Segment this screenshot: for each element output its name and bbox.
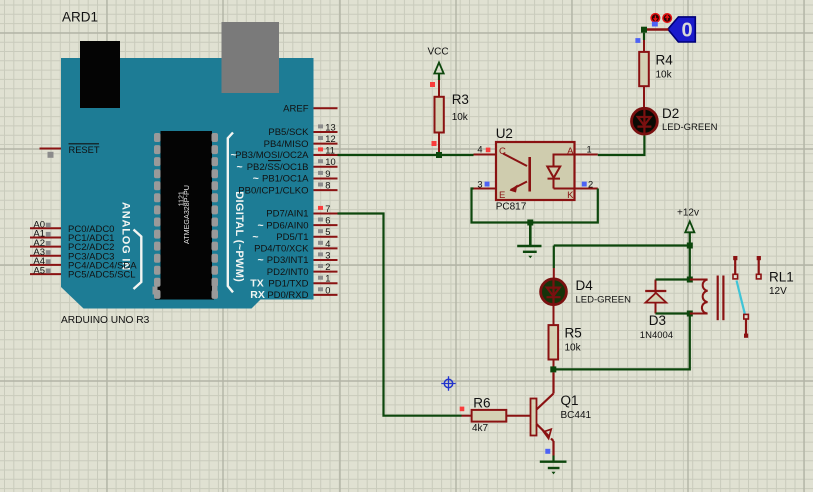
overline over SS of PB2 (268, 160, 281, 162)
label BC441 (561, 410, 592, 421)
svg-text:DIGITAL (~PWM): DIGITAL (~PWM) (233, 191, 245, 282)
LED D4 (541, 268, 567, 305)
svg-text:10k: 10k (656, 70, 673, 81)
label 10k (R4) (656, 70, 673, 81)
svg-text:0: 0 (325, 285, 330, 295)
svg-text:8: 8 (325, 181, 330, 191)
pin 5 (PD5/T1) (252, 227, 337, 243)
junction coil bottom (687, 311, 693, 317)
pin 0 (PD0/RXD) (250, 285, 337, 301)
svg-text:RESET: RESET (69, 145, 100, 155)
label ARDUINO UNO R3 (61, 315, 150, 326)
svg-text:+12v: +12v (677, 208, 699, 219)
origin crosshair marker (441, 376, 455, 390)
ATMEGA328P chip pads (154, 133, 218, 299)
state indicator squares (blue) (635, 22, 657, 43)
svg-text:VCC: VCC (427, 47, 448, 58)
pin RESET (40, 144, 100, 158)
pin 10 (PB2/SS/OC1B) (237, 157, 338, 173)
U2 pin labels C A E K (499, 146, 574, 201)
ARD1 bottom ISP header (black with pads) (153, 280, 218, 300)
svg-text:ARD1: ARD1 (62, 10, 98, 25)
svg-text:D4: D4 (576, 278, 594, 293)
relay RL1 core bars (718, 276, 724, 321)
logicstate toggle arrows (red circles) (651, 14, 671, 23)
ground symbol below U2 (517, 246, 541, 258)
label 1N4004 (640, 330, 673, 341)
label 10k (R3) (452, 112, 469, 123)
ARD1 power jack (black) (80, 41, 120, 108)
svg-text:AREF: AREF (283, 103, 309, 114)
pin 12 (PB4/MISO) (264, 134, 338, 150)
svg-text:PD6/AIN0: PD6/AIN0 (266, 220, 308, 231)
wire +12v down to relay coil (689, 246, 691, 280)
pin 7 (PD7/AIN1) (266, 204, 337, 220)
label LED-GREEN (D2) (662, 122, 718, 133)
pin 11 (PB3/MOSI/OC2A) (231, 145, 338, 161)
label R4 (656, 53, 674, 68)
label D4 (576, 278, 594, 293)
wire U2 ground loop (472, 189, 598, 223)
svg-text:1: 1 (587, 145, 592, 155)
label 10k (R5) (565, 343, 582, 354)
transistor Q1 base bar (531, 399, 537, 436)
ATMEGA328P chip text (179, 185, 191, 244)
svg-text:PD1/TXD: PD1/TXD (268, 279, 308, 290)
wire +12v rail horizontal (554, 244, 690, 246)
svg-text:PC5/ADC5/SCL: PC5/ADC5/SCL (68, 270, 136, 281)
U2 internal LED diode (547, 155, 574, 189)
state square at emitter (blue) (545, 449, 550, 454)
LED D2 (632, 108, 658, 135)
svg-text:D2: D2 (662, 106, 679, 121)
wire collector node to relay (553, 314, 690, 370)
pin 9 (PB1/OC1A) (253, 169, 338, 185)
pin A0 (PC0/ADC0) (30, 220, 114, 235)
svg-text:ATMEGA328P-PU: ATMEGA328P-PU (182, 185, 191, 244)
relay RL1 switch common pin (733, 258, 738, 279)
pin A5 (PC5/ADC5/SCL) (30, 265, 136, 280)
logicstate body (blue pentagon with 0) (668, 17, 695, 42)
U2 pin 4 stub (474, 145, 497, 155)
svg-text:~: ~ (231, 149, 237, 161)
pin A3 (PC3/ADC3) (30, 247, 114, 262)
transistor Q1 emitter with arrow (537, 424, 554, 456)
svg-text:2: 2 (588, 180, 593, 190)
svg-text:4: 4 (477, 145, 482, 155)
svg-text:PB4/MISO: PB4/MISO (264, 139, 309, 150)
svg-text:~: ~ (252, 231, 258, 243)
ANALOG IN label (120, 202, 132, 271)
IC ATMEGA328P chip body (161, 131, 213, 298)
svg-text:PD5/T1: PD5/T1 (276, 232, 308, 243)
svg-text:~: ~ (253, 173, 259, 185)
DIGITAL (~PWM) label (233, 191, 245, 282)
svg-text:BC441: BC441 (561, 410, 592, 421)
ground symbol below Q1 (540, 462, 567, 475)
optocoupler U2 body (496, 142, 575, 200)
label D3 (649, 313, 666, 328)
relay RL1 switch bottom terminal (744, 314, 749, 335)
svg-text:PD4/T0/XCK: PD4/T0/XCK (254, 244, 309, 255)
svg-text:PC817: PC817 (496, 202, 527, 213)
svg-text:C: C (499, 146, 506, 157)
svg-text:R5: R5 (565, 326, 582, 341)
U2 internal phototransistor (503, 154, 530, 193)
svg-text:TX: TX (250, 278, 263, 290)
relay RL1 second throw terminal (756, 258, 761, 279)
power +12v symbol (677, 208, 699, 246)
relay pin end squares (733, 256, 761, 338)
svg-text:6: 6 (325, 216, 330, 226)
svg-text:10k: 10k (565, 343, 582, 354)
pin 2 (PD2/INT0) (267, 262, 338, 278)
pin 4 (PD4/T0/XCK) (254, 239, 337, 255)
relay RL1 switch blade (cyan) (737, 281, 745, 314)
label RL1 (769, 270, 794, 285)
svg-text:2: 2 (325, 262, 330, 272)
svg-text:K: K (567, 190, 574, 201)
svg-text:7: 7 (325, 204, 330, 214)
wire pin7 to R6 (338, 214, 462, 416)
label R3 (452, 92, 469, 107)
svg-text:10k: 10k (452, 112, 469, 123)
label 12V (769, 286, 787, 297)
svg-text:E: E (499, 190, 505, 201)
svg-text:U2: U2 (496, 126, 513, 141)
svg-text:1: 1 (325, 274, 330, 284)
wire emitter to ground (552, 456, 554, 462)
label R6 (473, 396, 490, 411)
pin 13 (PB5/SCK) (268, 122, 337, 138)
U2 pin 1 stub (575, 145, 598, 155)
Arduino UNO module ARD1 - board body (61, 58, 314, 309)
svg-text:PB3/MOSI/OC2A: PB3/MOSI/OC2A (235, 150, 309, 161)
U2 pin 3 stub (474, 180, 497, 190)
transistor Q1 collector (537, 372, 554, 409)
wire pin11 to R3/U2 net (338, 154, 474, 156)
svg-text:ARDUINO UNO R3: ARDUINO UNO R3 (61, 315, 150, 326)
svg-text:R6: R6 (473, 396, 490, 411)
svg-text:PD2/INT0: PD2/INT0 (267, 267, 309, 278)
svg-text:3: 3 (325, 250, 330, 260)
resistor R3 (430, 80, 444, 152)
svg-text:R3: R3 (452, 92, 469, 107)
ANALOG IN white brace (134, 230, 142, 290)
pin 6 (PD6/AIN0) (258, 216, 338, 232)
junction at toggle (641, 27, 647, 33)
svg-text:A: A (567, 146, 574, 157)
svg-text:9: 9 (325, 169, 330, 179)
svg-text:PD3/INT1: PD3/INT1 (267, 255, 309, 266)
wire D3 top to coil (656, 278, 690, 280)
ARD1 USB connector (gray) (222, 22, 280, 93)
label ARD1 (62, 10, 98, 25)
svg-text:13: 13 (325, 122, 335, 132)
label D2 (662, 106, 679, 121)
wire D3 bottom to coil (656, 312, 690, 314)
relay RL1 coil (690, 280, 708, 314)
svg-text:12: 12 (325, 134, 335, 144)
logicstate output stub (647, 28, 669, 30)
pin 8 (PB0/ICP1/CLKO) (238, 181, 337, 197)
svg-text:D3: D3 (649, 313, 666, 328)
svg-text:~: ~ (258, 219, 264, 231)
svg-text:A5: A5 (33, 265, 45, 276)
svg-text:5: 5 (325, 227, 330, 237)
resistor R5 (549, 305, 559, 368)
pin A2 (PC2/ADC2) (30, 238, 114, 253)
svg-text:R4: R4 (656, 53, 674, 68)
resistor R6 (460, 407, 531, 422)
wire toggle to R4 (643, 33, 645, 40)
svg-text:~: ~ (237, 161, 243, 173)
DIGITAL (~PWM) white brace (228, 133, 233, 293)
wire junction to ground (529, 223, 532, 247)
label PC817 (496, 202, 527, 213)
svg-text:PD7/AIN1: PD7/AIN1 (266, 209, 308, 220)
junction at R3 bottom (436, 152, 442, 158)
svg-text:PB2/SS/OC1B: PB2/SS/OC1B (247, 162, 309, 173)
svg-text:3: 3 (477, 180, 482, 190)
svg-text:10: 10 (325, 157, 335, 167)
wire D2 to U2 pin1 (598, 136, 645, 156)
U2 pin 2 stub (575, 180, 598, 190)
svg-text:RL1: RL1 (769, 270, 794, 285)
pin A1 (PC1/ADC1) (30, 229, 114, 244)
svg-text:0: 0 (681, 20, 692, 42)
resistor R4 (639, 40, 649, 108)
svg-text:PB1/OC1A: PB1/OC1A (262, 174, 309, 185)
svg-text:4: 4 (325, 239, 330, 249)
svg-text:PB0/ICP1/CLKO: PB0/ICP1/CLKO (238, 185, 308, 196)
svg-text:Q1: Q1 (561, 393, 579, 408)
svg-text:RX: RX (250, 289, 265, 301)
label Q1 (561, 393, 579, 408)
pin A4 (PC4/ADC4/SDA) (30, 256, 137, 271)
svg-text:11: 11 (325, 145, 335, 155)
label R5 (565, 326, 582, 341)
svg-text:~: ~ (258, 254, 264, 266)
power VCC symbol (427, 47, 448, 81)
svg-text:PB5/SCK: PB5/SCK (268, 127, 309, 138)
svg-text:PD0/RXD: PD0/RXD (267, 290, 308, 301)
label U2 (496, 126, 513, 141)
pin 3 (PD3/INT1) (258, 250, 338, 266)
svg-text:LED-GREEN: LED-GREEN (662, 122, 718, 133)
pin 1 (PD1/TXD) (250, 274, 337, 290)
label 4k7 (472, 423, 489, 434)
svg-text:4k7: 4k7 (472, 423, 489, 434)
svg-text:1N4004: 1N4004 (640, 330, 673, 341)
svg-text:LED-GREEN: LED-GREEN (576, 295, 632, 306)
junction coil top (687, 277, 693, 283)
junction on ground loop (527, 220, 533, 226)
junction collector node (550, 366, 556, 372)
diode D3 (645, 280, 666, 314)
label LED-GREEN (D4) (576, 295, 632, 306)
svg-text:12V: 12V (769, 286, 787, 297)
wire rail down to D4 (553, 246, 555, 269)
junction below +12v (687, 243, 693, 249)
pin AREF (283, 103, 337, 114)
